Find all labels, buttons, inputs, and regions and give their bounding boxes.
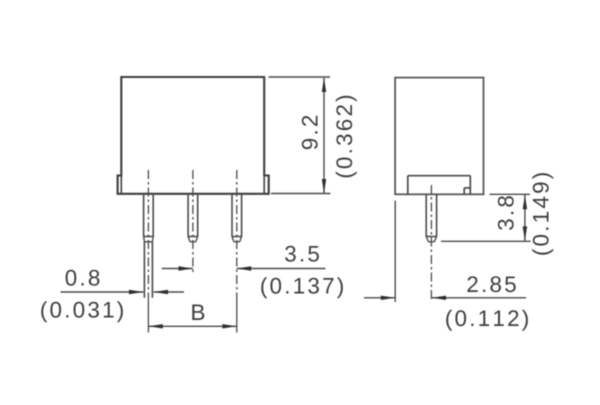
label 9.2 [302,116,318,149]
dimension 3.5 right dimension line [237,268,326,270]
dimension 3.8 bottom extension line [441,240,531,242]
pin 2 wide section [188,194,198,237]
side view recess step vertical [463,188,465,194]
dimension 3.8 up arrowhead [523,195,527,209]
pin 2 centerline [192,170,194,273]
side view pin centerline [430,185,432,302]
label (0.137) [261,277,343,298]
dimension 0.8 left-pointing arrowhead [154,290,168,294]
pin 3 wide section [232,194,242,237]
label (0.031) [41,301,123,322]
dimension 3.5 left-pointing arrowhead [237,266,251,270]
dimension B dimension line [148,325,236,327]
pin 1 wide section [144,194,154,237]
label B [192,305,204,321]
label 3.8 [498,196,514,230]
label (0.112) [446,310,528,331]
pin 1 taper [144,237,154,242]
dimension 2.85 left extension line [394,201,396,302]
dimension 9.2 down arrowhead [322,179,326,193]
dimension 2.85 right dimension line [432,297,526,299]
dimension 2.85 right-pointing arrowhead [381,296,395,300]
dimension 0.8 left dimension line [61,291,144,293]
dimension B left-pointing arrowhead [148,324,162,328]
side view recess right wall [469,176,471,195]
front view body outline [118,77,269,194]
side view pin wide section [426,194,436,236]
dimension 0.8 right-pointing arrowhead [129,290,143,294]
label 2.85 [467,276,515,292]
dimension 9.2 bottom extension line [271,193,331,195]
dimension 3.5 left dimension line [162,268,193,270]
pin 1 centerline extension (B) [147,297,149,333]
label (0.362) [336,96,357,178]
pin 3 centerline extension (B) [236,297,238,333]
dimension 3.5 right-pointing arrowhead [179,266,193,270]
pin 3 tip [232,237,242,242]
dimension 3.8 down arrowhead [523,226,527,240]
dimension 0.8 right dimension line [154,291,184,293]
label 3.5 [285,246,319,262]
dimension 2.85 left dimension line [364,297,395,299]
side view recess left wall [407,176,409,195]
pin 1 centerline [147,170,149,297]
side view body outline [395,78,483,195]
label 0.8 [66,270,100,286]
pin 1 narrow lower section [144,242,152,298]
dimension 9.2 dimension line [323,78,325,193]
pin 3 centerline [236,170,238,297]
side view pin tip [426,237,436,242]
label (0.149) [532,173,553,255]
dimension 9.2 up arrowhead [322,78,326,92]
dimension 2.85 left-pointing arrowhead [432,296,446,300]
front view body right edge lower segment [263,176,265,194]
dimension B right-pointing arrowhead [222,324,236,328]
pin 2 tip [188,237,198,242]
side view recess top wall [408,175,471,177]
dimension 9.2 top extension line [269,76,331,78]
dimension 3.8 top extension line [490,193,530,195]
dimension 3.8 dimension line [524,195,526,241]
front view body left edge lower segment [120,176,122,194]
side view recess step horizontal [464,187,470,189]
